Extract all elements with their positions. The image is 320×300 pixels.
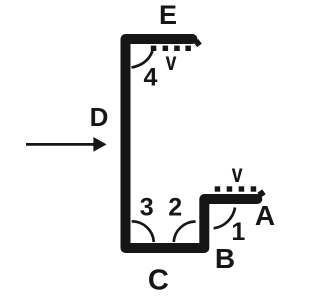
arrow D (incoming horizontal arrow) xyxy=(26,137,107,152)
svg-text:B: B xyxy=(215,243,235,274)
angle arc 1 xyxy=(214,208,235,229)
angle arc 2 xyxy=(174,222,196,243)
svg-text:v: v xyxy=(232,158,243,188)
angle arc 3 xyxy=(132,221,154,242)
svg-text:v: v xyxy=(166,46,177,76)
angle arc 4 xyxy=(132,51,153,68)
svg-text:E: E xyxy=(159,0,177,30)
svg-text:C: C xyxy=(148,265,169,297)
svg-text:2: 2 xyxy=(168,194,182,222)
dotted velocity vector (bottom, above ledge A) xyxy=(215,186,266,197)
step structure (bars E-top, left wall, floor C, step at B, ledge to A) xyxy=(126,39,258,248)
svg-text:3: 3 xyxy=(140,194,154,222)
dotted velocity vector (top, under bar E) xyxy=(151,39,202,51)
svg-text:D: D xyxy=(90,102,109,132)
svg-text:1: 1 xyxy=(231,218,245,246)
svg-text:A: A xyxy=(255,200,275,231)
svg-text:4: 4 xyxy=(144,64,158,92)
